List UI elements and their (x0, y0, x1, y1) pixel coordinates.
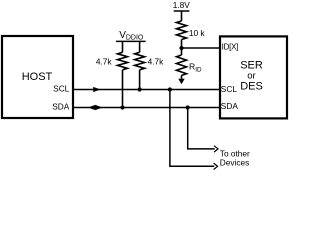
svg-text:SDA: SDA (221, 101, 239, 111)
wire SCL bus (HOST to SER/DES) (73, 89, 220, 91)
wire 10k to node ID (181, 40, 183, 49)
ground arrow below RID (178, 79, 184, 84)
svg-text:ID[X]: ID[X] (222, 42, 239, 51)
svg-text:4.7k: 4.7k (96, 57, 113, 67)
resistor 10k (177, 21, 187, 40)
junction dot SCL branch (168, 87, 172, 91)
block HOST box (2, 36, 73, 118)
junction dot SCL / right pullup (138, 87, 142, 91)
svg-text:10 k: 10 k (189, 28, 206, 38)
wire 1.8V to R10k (181, 11, 183, 21)
svg-text:SCL: SCL (53, 84, 70, 94)
wire SCL branch down (170, 90, 214, 167)
svg-text:Devices: Devices (220, 158, 250, 168)
wire SDA bus (HOST to SER/DES) (73, 107, 220, 109)
wire SDA branch down (188, 108, 215, 149)
svg-text:SCL: SCL (221, 84, 238, 94)
block SER/DES box (220, 36, 287, 118)
junction dot SDA / left pullup (120, 105, 124, 109)
resistor R pullup SCL-left column (4.7k to SDA) (118, 41, 128, 107)
svg-text:SDA: SDA (52, 102, 70, 112)
power rail VDDIO bar (116, 40, 146, 42)
wire node ID to ID[X] pin (182, 47, 221, 49)
node ID junction dot (179, 46, 183, 50)
svg-text:DES: DES (240, 81, 263, 93)
resistor RID (177, 48, 187, 79)
arrow right on SCL (93, 87, 100, 92)
svg-text:HOST: HOST (22, 71, 53, 83)
arrowhead to other devices (lower) (214, 163, 218, 169)
arrow bidirectional on SDA (88, 105, 103, 110)
arrowhead to other devices (upper) (214, 146, 218, 152)
svg-text:4.7k: 4.7k (148, 57, 165, 67)
resistor pullup 4.7k right column (to SCL) (135, 41, 145, 89)
svg-text:1.8V: 1.8V (173, 0, 191, 10)
junction dot SDA branch (186, 105, 190, 109)
supply 1.8V bar (174, 10, 190, 12)
